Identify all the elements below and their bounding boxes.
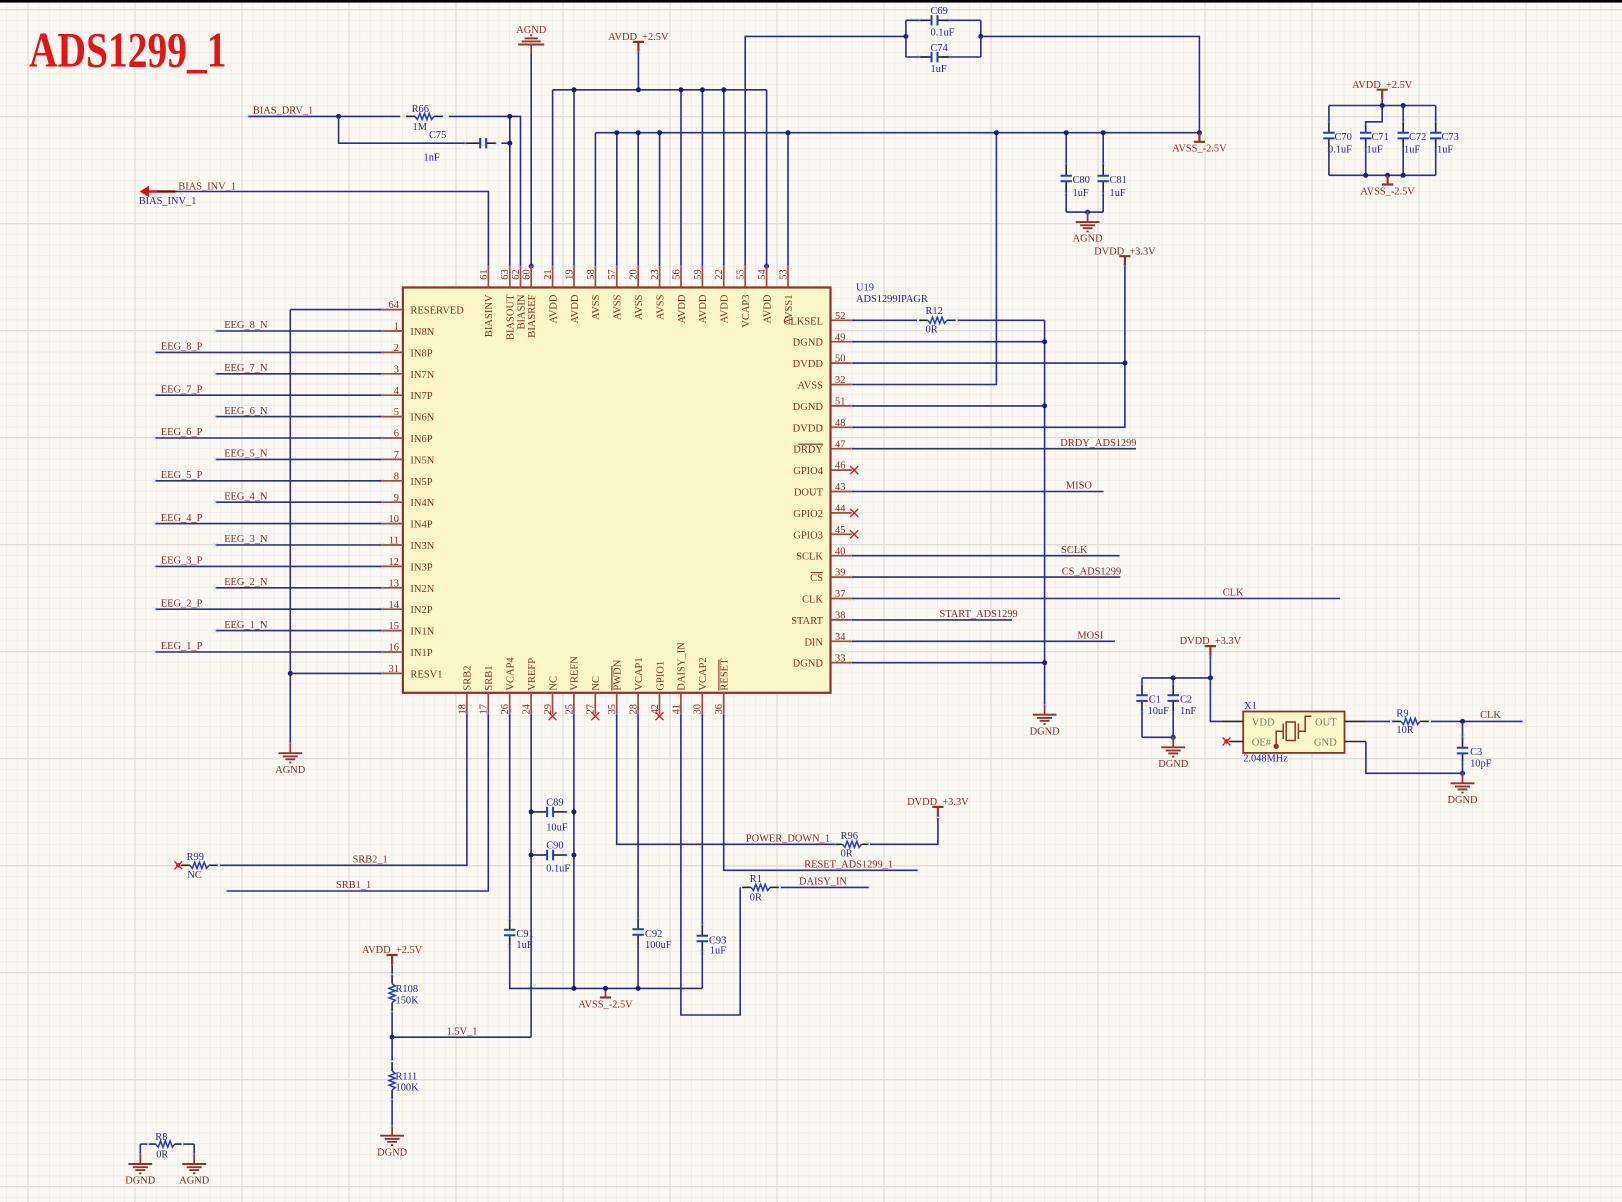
svg-text:9: 9 [394, 493, 399, 504]
svg-text:U19: U19 [856, 283, 874, 294]
svg-text:AVSS: AVSS [591, 294, 602, 320]
power AGND below C80/C81 [1087, 212, 1089, 222]
svg-text:C69: C69 [931, 6, 948, 17]
wire C80/C81 bottom join [1066, 211, 1103, 213]
svg-text:AGND: AGND [516, 25, 547, 36]
svg-text:10R: 10R [1396, 725, 1413, 736]
svg-text:EEG_2_N: EEG_2_N [224, 577, 268, 588]
wire net EEG_1_N [216, 630, 382, 632]
pin 32 AVSS (right) [831, 384, 852, 386]
pin 19 AVDD (top) [573, 266, 575, 287]
wire pin50 DVDD [852, 362, 1125, 364]
wire net EEG_2_N [216, 587, 382, 589]
svg-text:DGND: DGND [1030, 726, 1061, 737]
junction DGND bus row33 [1042, 660, 1047, 665]
wire net 1.5V_1 [392, 1036, 531, 1038]
svg-text:58: 58 [586, 269, 597, 279]
junction at (509.8,116.4) [507, 114, 512, 119]
wire R96 to DVDD stem [870, 818, 938, 845]
pin 15 IN1N (left) [382, 630, 403, 632]
svg-text:AVDD: AVDD [762, 294, 773, 323]
svg-text:AGND: AGND [1073, 234, 1104, 245]
wire pin41 DAISY_IN loop to R1 [681, 714, 740, 1015]
svg-text:40: 40 [835, 546, 845, 557]
resistor R9 [1392, 720, 1401, 722]
svg-text:33: 33 [835, 653, 845, 664]
power DVDD_+3.3V at R96 [932, 807, 943, 817]
svg-text:C72: C72 [1409, 132, 1426, 143]
resistor R8 [149, 1143, 156, 1145]
svg-text:PWDN: PWDN [613, 659, 624, 690]
pin 3 IN7N (left) [382, 373, 403, 375]
svg-text:IN7P: IN7P [410, 391, 432, 402]
wire rail2 riser pin20 [637, 133, 639, 266]
svg-text:AVDD: AVDD [698, 294, 709, 323]
resistor R96 [836, 843, 843, 845]
junction bottom rail C72 [1401, 173, 1406, 178]
X1 pin OUT [1345, 720, 1366, 722]
svg-text:VREFP: VREFP [527, 658, 538, 691]
svg-text:DGND: DGND [1447, 795, 1478, 806]
junction bottom rail at stem [1385, 173, 1390, 178]
svg-text:SRB1_1: SRB1_1 [336, 880, 371, 891]
junction at pin 60 top [529, 264, 534, 269]
wire pin37 CLK long [852, 598, 1340, 600]
pin 47 DRDY (right) [831, 448, 852, 450]
svg-text:23: 23 [650, 269, 661, 279]
power AGND at R8 [193, 1154, 195, 1164]
pin 59 AVDD (top) [701, 266, 703, 287]
wire AVDD rail1 [553, 89, 767, 91]
junction C2 top [1171, 675, 1176, 680]
pin 46 GPIO4 (right) [831, 469, 852, 471]
svg-text:2: 2 [394, 343, 399, 354]
pin 6 IN6P (left) [382, 437, 403, 439]
wire SRB1_1 from pin17 [227, 714, 489, 891]
pin 38 START (right) [831, 619, 852, 621]
svg-text:1nF: 1nF [424, 153, 440, 164]
svg-text:IN2P: IN2P [410, 605, 432, 616]
wire AVSS rail2 [595, 132, 1199, 134]
junction DVDD at rail [1208, 675, 1213, 680]
svg-text:BIASOUT: BIASOUT [506, 294, 517, 340]
svg-text:IN7N: IN7N [410, 370, 434, 381]
wire SRB2_1 from pin18 [220, 714, 467, 865]
wire net EEG_5_N [216, 458, 382, 460]
svg-text:AVSS_-2.5V: AVSS_-2.5V [1360, 186, 1415, 197]
capacitor C80 [1065, 133, 1067, 165]
pin 24 VREFP (bottom) [530, 693, 532, 714]
pin 35 PWDN (bottom) [616, 693, 618, 714]
svg-text:46: 46 [835, 461, 845, 472]
svg-text:57: 57 [607, 269, 618, 279]
power DGND at R8 [139, 1154, 141, 1164]
pin 54 AVDD (top) [766, 266, 768, 287]
svg-text:R66: R66 [412, 104, 429, 115]
svg-text:GPIO4: GPIO4 [793, 466, 824, 477]
svg-text:IN4N: IN4N [410, 498, 434, 509]
power AVDD_+2.5V top center [633, 42, 644, 52]
svg-text:SCLK: SCLK [1061, 545, 1088, 556]
junction C89 right [571, 809, 576, 814]
pin 8 IN5P (left) [382, 480, 403, 482]
svg-text:NC: NC [591, 676, 602, 691]
svg-text:EEG_4_N: EEG_4_N [224, 491, 268, 502]
capacitor C69 [920, 19, 932, 21]
wire rail2 riser pin53 [787, 133, 789, 266]
svg-text:EEG_2_P: EEG_2_P [161, 598, 203, 609]
svg-text:R108: R108 [396, 984, 419, 995]
pin 40 SCLK (right) [831, 555, 852, 557]
svg-text:100K: 100K [396, 1083, 420, 1094]
no-connect X at R99 [174, 861, 182, 869]
svg-text:R12: R12 [926, 306, 943, 317]
svg-text:IN5N: IN5N [410, 455, 434, 466]
svg-text:RESV1: RESV1 [410, 669, 442, 680]
junction rail2 right end / AVSS power [1197, 130, 1202, 135]
wire pin25 VREFN down to AVSS rail [573, 714, 575, 988]
wire pin38 START net [852, 619, 1012, 621]
wire C69/C74 left loop [905, 20, 907, 57]
junction 1.5V_1 [390, 1035, 395, 1040]
svg-text:45: 45 [835, 525, 845, 536]
wire C71 jog [1366, 106, 1383, 128]
power DGND below bus [1044, 705, 1046, 715]
pin 61 BIASINV (top) [487, 266, 489, 287]
wire rail2 riser pin23 [659, 133, 661, 266]
X1 pin OE# [1229, 741, 1243, 743]
svg-text:EEG_3_P: EEG_3_P [161, 556, 203, 567]
svg-text:CS_ADS1299: CS_ADS1299 [1062, 566, 1121, 577]
pin 5 IN6N (left) [382, 416, 403, 418]
svg-text:EEG_5_P: EEG_5_P [161, 470, 203, 481]
svg-text:CLK: CLK [1480, 710, 1501, 721]
svg-text:EEG_7_N: EEG_7_N [224, 363, 268, 374]
wire R8 left to DGND [140, 1143, 147, 1145]
svg-text:20: 20 [629, 269, 640, 279]
wire rail1 riser pin56 [680, 90, 682, 266]
wire C1/C2 top rail [1142, 677, 1210, 679]
capacitor C70 [1328, 106, 1330, 123]
wire C70-C73 top rail [1329, 105, 1436, 107]
wire pin47 DRDY net [852, 448, 1136, 450]
svg-text:BIASREF: BIASREF [527, 294, 538, 337]
svg-text:EEG_1_P: EEG_1_P [161, 641, 203, 652]
wire net EEG_8_N [216, 330, 382, 332]
pin 11 IN3N (left) [382, 544, 403, 546]
svg-text:C1: C1 [1149, 695, 1161, 706]
svg-text:R8: R8 [155, 1132, 167, 1143]
svg-text:C73: C73 [1442, 132, 1459, 143]
pin 45 GPIO3 (right) [831, 533, 852, 535]
svg-text:17: 17 [479, 704, 490, 714]
junction C90 left [529, 853, 534, 858]
svg-text:C80: C80 [1073, 175, 1090, 186]
junction AVSS rail pin28 [636, 986, 641, 991]
svg-text:RESET: RESET [720, 658, 731, 691]
svg-text:GND: GND [1314, 737, 1337, 748]
capacitor C2 [1172, 678, 1174, 685]
svg-text:1uF: 1uF [1073, 188, 1089, 199]
pin 63 BIASOUT (top) [509, 266, 511, 287]
svg-text:12: 12 [389, 557, 399, 568]
svg-text:64: 64 [389, 300, 400, 311]
svg-text:30: 30 [693, 704, 704, 714]
capacitor C73 [1435, 106, 1437, 123]
wire AVDD stem to rail [637, 52, 639, 90]
svg-text:CLK: CLK [1223, 588, 1244, 599]
svg-text:IN4P: IN4P [410, 520, 432, 531]
svg-text:18: 18 [457, 704, 468, 714]
wire net EEG_3_N [216, 544, 382, 546]
pin 25 VREFN (bottom) [573, 693, 575, 714]
junction DVDD riser row50 [1122, 361, 1127, 366]
pin 4 IN7P (left) [382, 394, 403, 396]
pin 16 IN1P (left) [382, 651, 403, 653]
wire VCAP3 pin55 riser to C69/C74 [745, 36, 906, 266]
power AVSS_-2.5V at rail2 end [1194, 133, 1205, 142]
svg-text:AVSS: AVSS [655, 294, 666, 320]
pin 36 RESET (bottom) [723, 693, 725, 714]
svg-text:0.1uF: 0.1uF [931, 28, 955, 39]
wire rail1 riser pin21 [552, 90, 554, 266]
svg-text:DGND: DGND [125, 1176, 156, 1187]
pin 21 AVDD (top) [552, 266, 554, 287]
svg-text:R99: R99 [187, 852, 204, 863]
svg-text:AVDD: AVDD [548, 294, 559, 323]
svg-text:10: 10 [389, 514, 399, 525]
wire R111 to DGND [391, 1100, 393, 1126]
svg-text:63: 63 [500, 269, 511, 279]
pin 9 IN4N (left) [382, 501, 403, 503]
junction C1/C2 bottom [1171, 735, 1176, 740]
capacitor C90 [533, 854, 547, 856]
junction BIAS_DRV_1 at R66/C75 split [336, 114, 341, 119]
svg-text:60: 60 [522, 269, 533, 279]
wire AGND to pin 60 BIASREF [530, 54, 532, 271]
wire C75 parallel branch [339, 116, 466, 143]
svg-text:AVDD: AVDD [677, 294, 688, 323]
svg-text:EEG_8_P: EEG_8_P [161, 342, 203, 353]
capacitor C89 [533, 811, 547, 813]
svg-text:62: 62 [511, 269, 522, 279]
wire net EEG_5_P [155, 480, 381, 482]
junction C80/C81 bottom [1085, 210, 1090, 215]
svg-text:1: 1 [394, 322, 399, 333]
svg-text:NC: NC [187, 870, 202, 881]
svg-text:AVDD: AVDD [570, 294, 581, 323]
svg-text:16: 16 [389, 643, 399, 654]
svg-text:C71: C71 [1372, 132, 1389, 143]
wire junction to R111 [391, 1037, 393, 1060]
svg-text:C89: C89 [546, 798, 563, 809]
svg-text:IN3N: IN3N [410, 541, 434, 552]
pin 13 IN2N (left) [382, 587, 403, 589]
wire rail1 riser pin59 [701, 90, 703, 266]
pin 49 DGND (right) [831, 341, 852, 343]
svg-text:51: 51 [835, 397, 845, 408]
no-connect X pin46 [850, 466, 858, 474]
junction AVSS rail pin25 [571, 986, 576, 991]
svg-text:EEG_7_P: EEG_7_P [161, 384, 203, 395]
wire pin63 riser BIASOUT [509, 116, 511, 266]
wire net EEG_7_N [216, 373, 382, 375]
svg-text:DVDD_+3.3V: DVDD_+3.3V [1094, 246, 1156, 257]
svg-text:IN1N: IN1N [410, 627, 434, 638]
wire block to AVSS corner [981, 36, 1200, 132]
wire RESERVED row [290, 309, 381, 311]
svg-text:START_ADS1299: START_ADS1299 [940, 609, 1018, 620]
svg-text:DGND: DGND [793, 402, 824, 413]
svg-text:EEG_4_P: EEG_4_P [161, 513, 203, 524]
pin 17 SRB1 (bottom) [487, 693, 489, 714]
svg-text:10uF: 10uF [546, 823, 568, 834]
svg-text:IN2N: IN2N [410, 584, 434, 595]
wire C69/C74 right loop [980, 20, 982, 57]
svg-text:AGND: AGND [275, 765, 306, 776]
svg-text:0.1uF: 0.1uF [546, 864, 570, 875]
pin 39 CS (right) [831, 576, 852, 578]
pin 33 DGND (right) [831, 662, 852, 664]
svg-text:AVSS_-2.5V: AVSS_-2.5V [1172, 144, 1227, 155]
capacitor C75 [465, 142, 480, 144]
svg-text:VCAP1: VCAP1 [634, 657, 645, 690]
svg-text:ADS1299_1: ADS1299_1 [29, 22, 226, 77]
svg-text:R111: R111 [396, 1072, 418, 1083]
svg-text:C75: C75 [429, 130, 446, 141]
svg-text:37: 37 [835, 589, 845, 600]
junction DGND bus row49 [1042, 339, 1047, 344]
wire pin40 SCLK [852, 555, 1120, 557]
wire pin33 DGND [852, 662, 1045, 664]
svg-text:6: 6 [394, 429, 399, 440]
pin 10 IN4P (left) [382, 523, 403, 525]
svg-text:EEG_3_N: EEG_3_N [224, 534, 268, 545]
X1 pin GND [1345, 741, 1366, 743]
X1 crystal glyph [1274, 716, 1311, 748]
pin 58 AVSS (top) [594, 266, 596, 287]
svg-text:24: 24 [522, 703, 533, 714]
pin 53 AVSS1 (top) [787, 266, 789, 287]
svg-text:C3: C3 [1470, 747, 1482, 758]
svg-text:DAISY_IN: DAISY_IN [799, 877, 847, 888]
pin 52 CLKSEL (right) [831, 319, 852, 321]
junction left bus at RESV1 [288, 671, 293, 676]
no-connect X pin29 [549, 712, 557, 720]
wire C70-C73 bottom rail [1329, 174, 1436, 176]
svg-text:EEG_5_N: EEG_5_N [224, 449, 268, 460]
wire rail1 riser pin19 [573, 90, 575, 266]
svg-text:DVDD_+3.3V: DVDD_+3.3V [907, 797, 969, 808]
wire left bus vertical [289, 310, 291, 744]
svg-text:0R: 0R [750, 893, 762, 904]
svg-text:1uF: 1uF [1404, 145, 1420, 156]
svg-text:DRDY_ADS1299: DRDY_ADS1299 [1060, 438, 1136, 449]
svg-text:47: 47 [835, 439, 845, 450]
svg-text:1nF: 1nF [1180, 706, 1196, 717]
junction C90 right [571, 853, 576, 858]
pin 50 DVDD (right) [831, 362, 852, 364]
svg-text:CLK: CLK [802, 595, 823, 606]
junction top rail at stem [1380, 103, 1385, 108]
svg-text:0R: 0R [156, 1150, 168, 1161]
wire DGND bus vertical [1044, 320, 1046, 704]
wire pin34 DIN net MOSI [852, 640, 1115, 642]
pin 2 IN8P (left) [382, 351, 403, 353]
svg-text:C74: C74 [931, 43, 949, 54]
svg-text:C92: C92 [645, 929, 662, 940]
resistor R99 (NC) [181, 864, 190, 866]
svg-text:31: 31 [389, 664, 399, 675]
svg-text:MISO: MISO [1066, 481, 1092, 492]
svg-text:11: 11 [389, 536, 399, 547]
svg-text:36: 36 [714, 704, 725, 714]
wire pin24 VREFP down to 1.5V_1 [530, 714, 532, 1037]
svg-text:48: 48 [835, 418, 845, 429]
svg-text:CLKSEL: CLKSEL [783, 316, 823, 327]
pin 56 AVDD (top) [680, 266, 682, 287]
svg-text:OE#: OE# [1252, 737, 1272, 748]
svg-text:SRB1: SRB1 [484, 665, 495, 690]
wire R9 to CLK node [1431, 720, 1523, 722]
pin 64 RESERVED (left) [382, 309, 403, 311]
power AVDD_+2.5V top-right block [1377, 90, 1388, 100]
junction dots on rail1 [572, 87, 577, 92]
svg-text:DVDD_+3.3V: DVDD_+3.3V [1180, 636, 1242, 647]
svg-text:IN1P: IN1P [410, 648, 432, 659]
no-connect X pin27 [591, 712, 599, 720]
svg-text:BIAS_INV_1: BIAS_INV_1 [178, 181, 236, 192]
junction dots on rail2 [614, 130, 619, 135]
svg-text:150K: 150K [396, 996, 420, 1007]
resistor R108 [391, 975, 393, 984]
power AVSS_-2.5V below block [1382, 176, 1393, 185]
resistor R1 [742, 886, 751, 888]
pin 57 AVSS (top) [616, 266, 618, 287]
wire net EEG_4_N [216, 501, 382, 503]
svg-text:BIASINV: BIASINV [484, 294, 495, 337]
pin 43 DOUT (right) [831, 491, 852, 493]
svg-text:IN6N: IN6N [410, 413, 434, 424]
svg-text:CS: CS [810, 573, 823, 584]
capacitor C71 [1365, 125, 1367, 133]
wire AVDD to R108 [391, 965, 393, 974]
junction at pin 54 top [764, 264, 769, 269]
power DGND below C3 [1462, 773, 1464, 783]
svg-text:DRDY: DRDY [793, 445, 823, 456]
svg-text:IN8P: IN8P [410, 348, 432, 359]
junction CLK at C3 [1460, 719, 1465, 724]
svg-text:32: 32 [835, 375, 845, 386]
no-connect X pin42 [656, 712, 664, 720]
wire rail2 riser pin58 [594, 133, 596, 266]
svg-text:VDD: VDD [1252, 717, 1275, 728]
svg-text:19: 19 [564, 269, 575, 279]
svg-text:13: 13 [389, 578, 399, 589]
wire net EEG_2_P [155, 608, 381, 610]
junction C69 block right [978, 34, 983, 39]
pin 31 RESV1 (left) [382, 672, 403, 674]
svg-text:R9: R9 [1396, 709, 1408, 720]
pin 26 VCAP4 (bottom) [509, 693, 511, 714]
wire RESV1 row [290, 672, 381, 674]
junction rail2 at C80 [1064, 130, 1069, 135]
pin 48 DVDD (right) [831, 426, 852, 428]
pin 51 DGND (right) [831, 405, 852, 407]
pin 30 VCAP2 (bottom) [701, 693, 703, 714]
wire pin43 DOUT net MISO [852, 491, 1104, 493]
svg-text:MOSI: MOSI [1077, 631, 1104, 642]
